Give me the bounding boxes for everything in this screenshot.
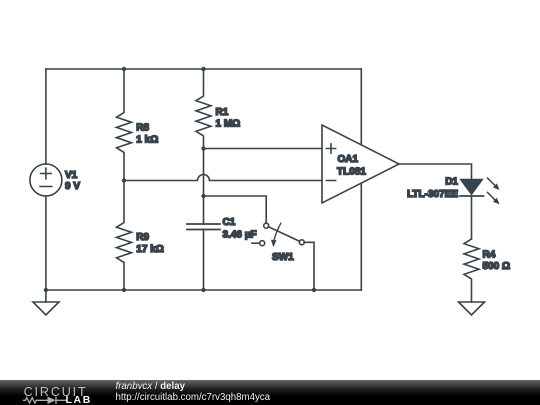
svg-text:LAB: LAB: [66, 394, 92, 405]
wire LED to R4: [471, 196, 473, 239]
svg-text:R9: R9: [136, 232, 149, 243]
switch SW1: [252, 223, 304, 263]
CircuitLab logo: [15, 380, 115, 405]
node dot bottom rail / C1: [201, 288, 205, 292]
ground (right): [459, 302, 485, 315]
svg-text:9 V: 9 V: [65, 181, 80, 192]
voltage source V1: [30, 164, 80, 196]
node dot bottom rail / ground: [44, 288, 48, 292]
svg-text:R8: R8: [136, 123, 149, 134]
svg-text:17 kΩ: 17 kΩ: [136, 244, 163, 255]
resistor R1: [196, 69, 240, 149]
svg-text:R4: R4: [483, 249, 496, 260]
node dot bottom rail / switch: [312, 288, 316, 292]
node dot R8/R9 row: [122, 178, 126, 182]
svg-text:LTL-307EE: LTL-307EE: [407, 189, 458, 200]
op-amp OA1: [322, 125, 399, 203]
footer bar: [0, 380, 540, 405]
ground (left): [33, 290, 59, 315]
svg-text:1 kΩ: 1 kΩ: [136, 134, 158, 145]
resistor R9: [117, 181, 164, 291]
wire node to switch common: [204, 196, 267, 223]
svg-text:TL081: TL081: [337, 166, 366, 177]
svg-text:D1: D1: [445, 177, 458, 188]
svg-text:OA1: OA1: [338, 154, 359, 165]
node dot C1/switch: [201, 194, 205, 198]
svg-text:C1: C1: [223, 217, 236, 228]
node dot bottom rail / R9: [122, 288, 126, 292]
wire top rail: [46, 68, 361, 70]
resistor R8: [117, 69, 159, 181]
capacitor C1: [187, 217, 257, 240]
node dot top rail / R8: [122, 67, 126, 71]
svg-text:V1: V1: [65, 170, 78, 181]
wire R1 column down to capacitor: [203, 149, 205, 225]
wire noninverting input row: [204, 148, 323, 150]
svg-text:1 MΩ: 1 MΩ: [216, 119, 241, 130]
wire bottom rail: [46, 289, 361, 291]
resistor R4: [464, 239, 510, 302]
wire op-amp output to LED: [399, 164, 472, 180]
wire capacitor to bottom rail: [203, 230, 205, 291]
wire left rail top (V+ to V1): [45, 69, 47, 164]
svg-text:500 Ω: 500 Ω: [483, 261, 510, 272]
svg-text:R1: R1: [216, 107, 229, 118]
footer credit text: [116, 381, 271, 403]
svg-text:SW1: SW1: [272, 252, 294, 263]
LED D1: [407, 177, 499, 205]
svg-text:3.46 µF: 3.46 µF: [223, 229, 257, 240]
wire op-amp V- supply: [360, 183, 362, 290]
node dot R1 / +input: [201, 146, 205, 150]
wire left rail bottom (V1 to ground rail): [45, 196, 47, 290]
wire op-amp V+ supply: [360, 69, 362, 145]
node dot top rail / R1: [201, 67, 205, 71]
wire switch to bottom rail: [304, 242, 314, 290]
wire inverting input row with hop over R1 column: [124, 175, 322, 181]
